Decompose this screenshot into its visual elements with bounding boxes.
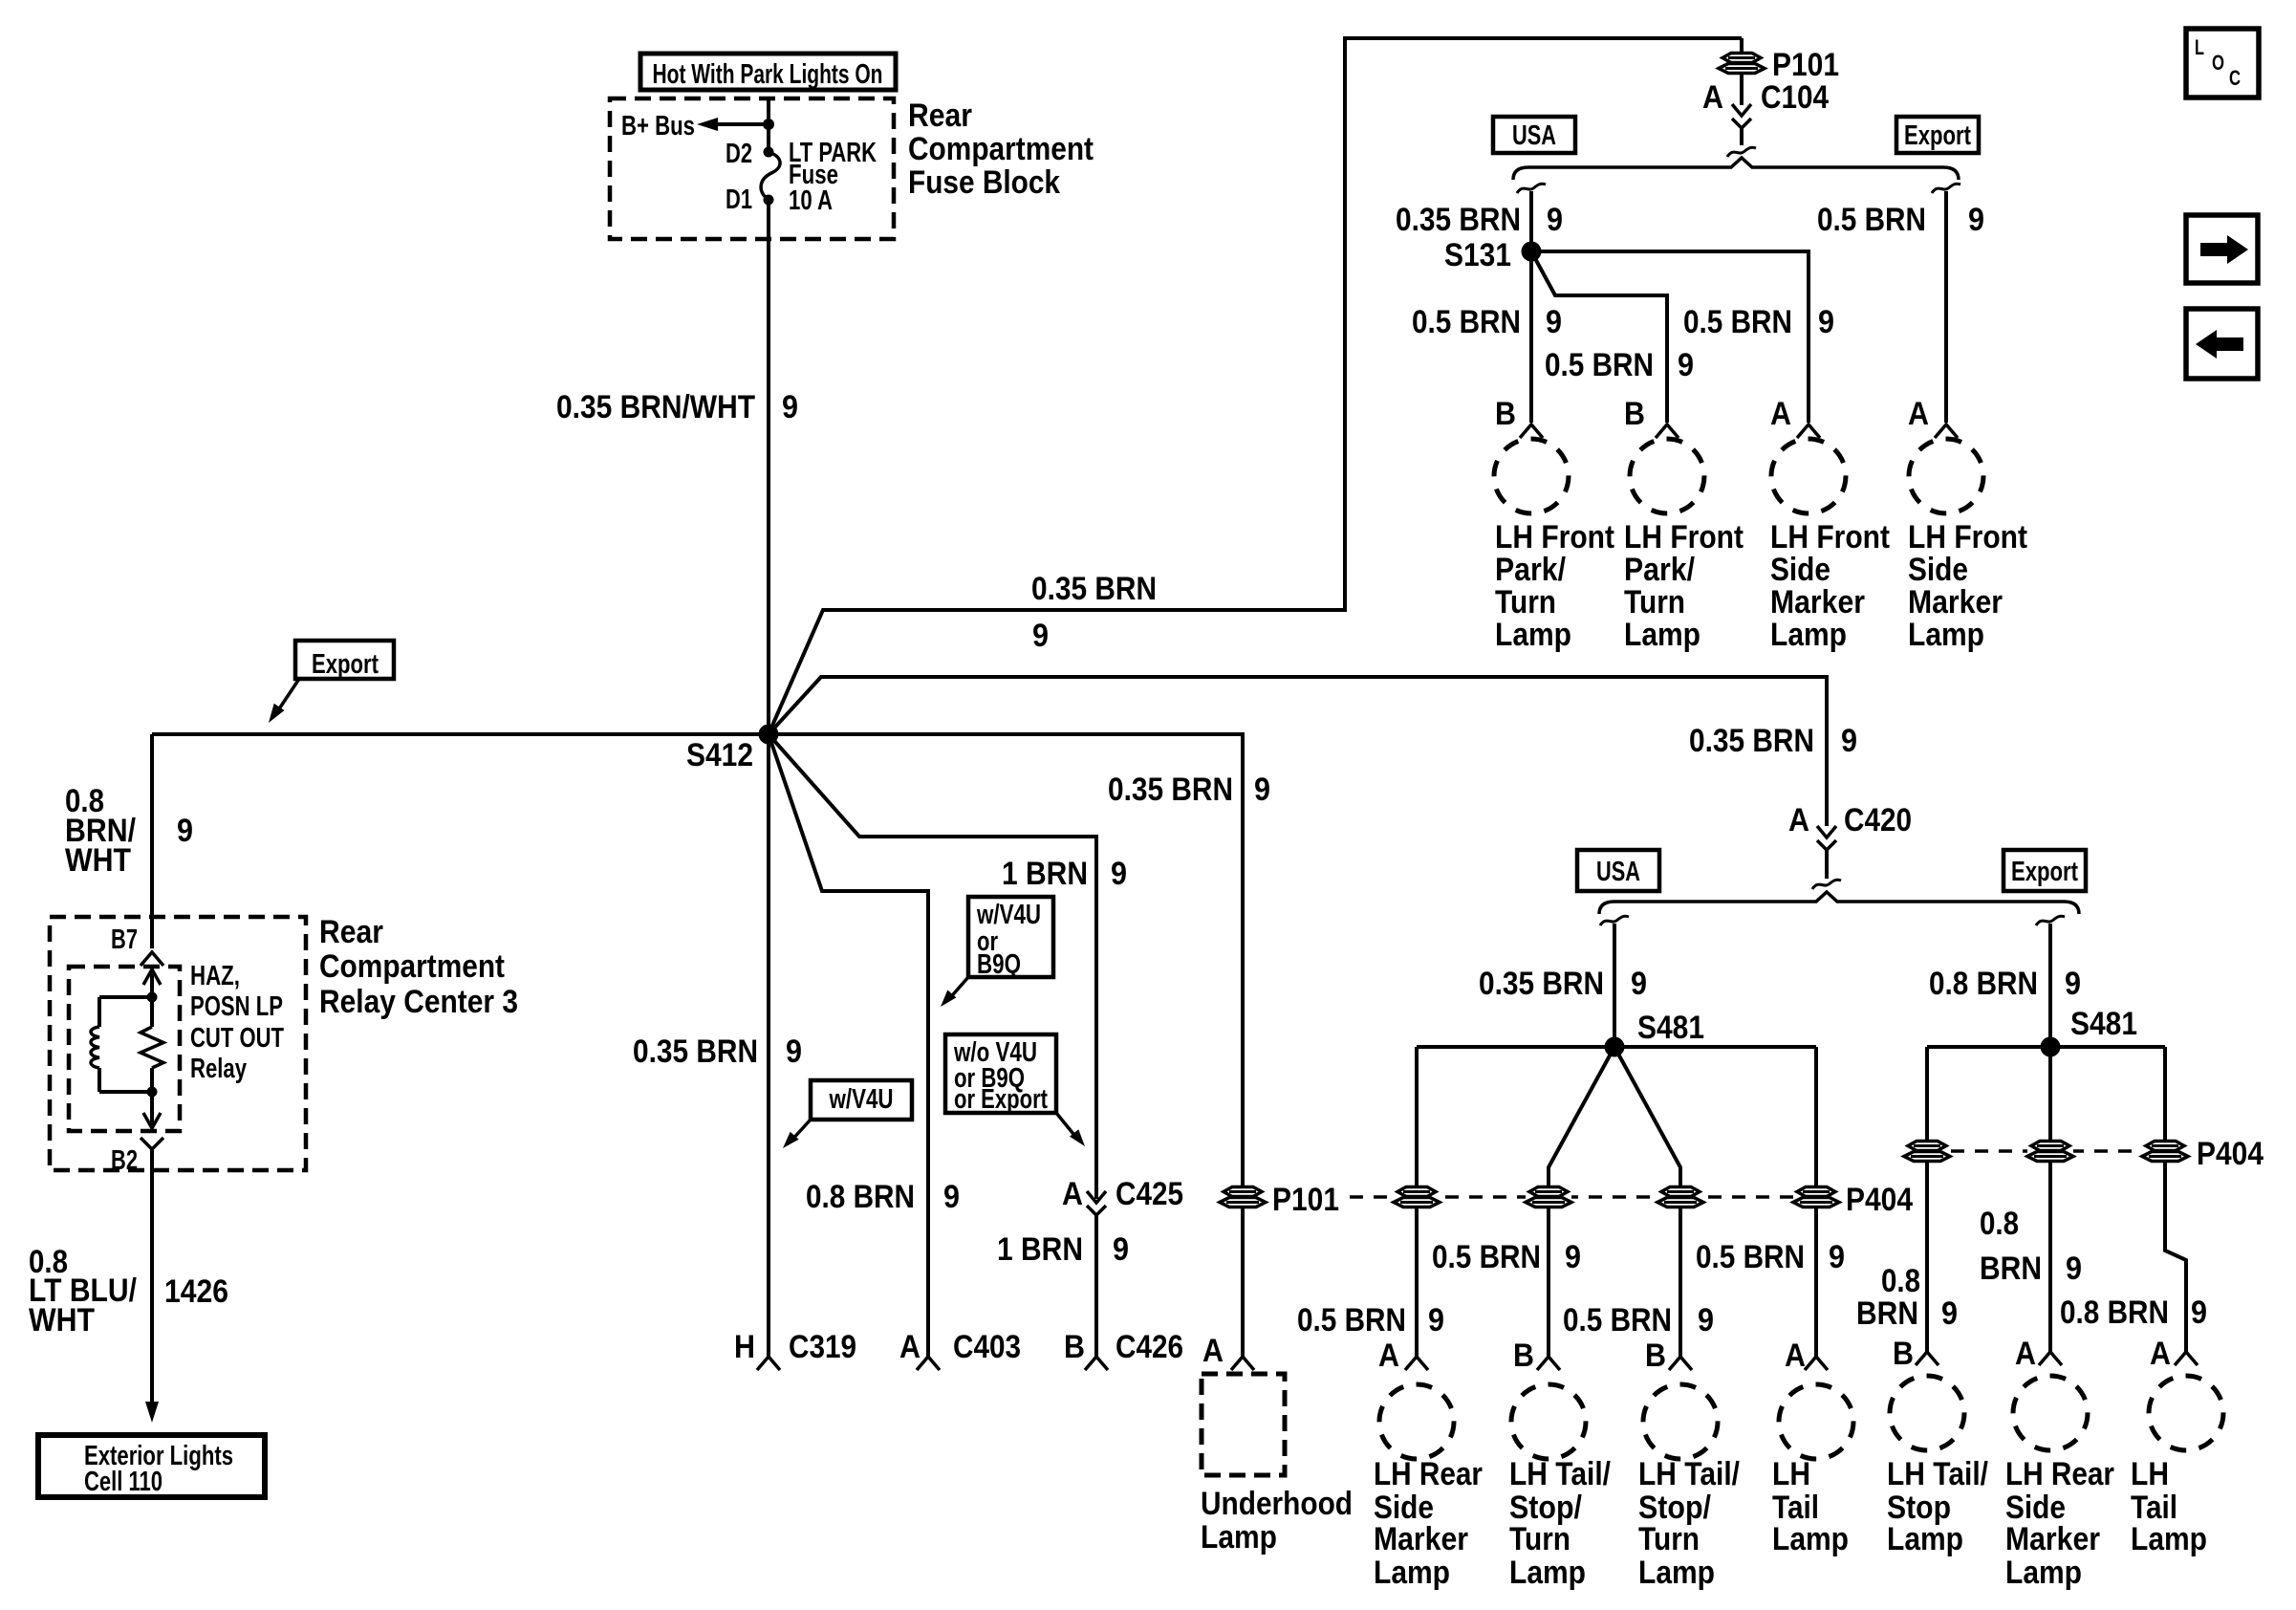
svg-text:0.5 BRN: 0.5 BRN (1432, 1239, 1541, 1275)
label: 0.35 BRN 9 (underhood feed) (1108, 772, 1270, 808)
svg-text:C403: C403 (953, 1329, 1021, 1365)
connector C319 (pin H) (734, 1329, 856, 1370)
svg-text:A: A (2015, 1336, 2036, 1372)
svg-text:9: 9 (1941, 1295, 1958, 1332)
grommet P404-4 (1793, 1186, 1839, 1207)
svg-text:Lamp: Lamp (1495, 617, 1571, 653)
svg-text:9: 9 (1631, 966, 1647, 1002)
svg-text:Marker: Marker (2005, 1521, 2100, 1557)
svg-text:B: B (1893, 1336, 1914, 1372)
label: 0.35 BRN 9 (S131 feed) (1396, 202, 1563, 238)
nav box: LOC (2186, 29, 2259, 98)
svg-text:D1: D1 (726, 185, 752, 215)
svg-text:Side: Side (1908, 552, 1968, 588)
svg-text:0.35 BRN/WHT: 0.35 BRN/WHT (556, 389, 755, 425)
svg-text:CUT OUT: CUT OUT (190, 1023, 284, 1054)
power label box: Hot With Park Lights On (640, 54, 896, 90)
svg-text:Lamp: Lamp (1772, 1521, 1849, 1557)
label: 0.5 BRN 9 (lamp4) (1817, 202, 1984, 238)
svg-text:0.35 BRN: 0.35 BRN (1396, 202, 1521, 238)
svg-text:Export: Export (2011, 857, 2078, 887)
lamp: LH Rear Side Marker Lamp (right) (2013, 1376, 2088, 1450)
svg-text:Park/: Park/ (1624, 552, 1695, 588)
option tag: w/o V4U or B9Q or Export (points to C425 wire) (945, 1034, 1085, 1146)
svg-text:Lamp: Lamp (2005, 1555, 2082, 1591)
svg-text:O: O (2212, 51, 2224, 75)
wire: S412 to C420 (0.35 BRN 9) (769, 677, 1827, 817)
svg-text:Lamp: Lamp (1509, 1555, 1586, 1591)
svg-text:0.8: 0.8 (1980, 1206, 2019, 1242)
label: LH Tail/Stop/Turn Lamp (1) (1509, 1456, 1611, 1591)
svg-text:C319: C319 (789, 1329, 856, 1365)
svg-text:Side: Side (1770, 552, 1830, 588)
svg-text:B2: B2 (111, 1145, 138, 1176)
label: 0.8 BRN/WHT 9 (65, 783, 193, 879)
svg-text:LH Tail/: LH Tail/ (1638, 1456, 1740, 1492)
wire: Export branch to S481 (0.8 BRN 9) (2036, 916, 2065, 1047)
pin A (lamp4) (1908, 396, 1929, 432)
svg-text:Park/: Park/ (1495, 552, 1566, 588)
svg-text:Marker: Marker (1374, 1521, 1468, 1557)
label: 0.5 BRN 9 (lamp1) (1412, 304, 1562, 340)
label: 0.8 BRN 9 (right lamp B) (1980, 1206, 2082, 1287)
option box: USA (rear) (1577, 850, 1659, 891)
svg-text:9: 9 (1968, 202, 1984, 238)
svg-text:9: 9 (786, 1033, 802, 1070)
wire: B+ Bus feed with arrow (697, 118, 774, 131)
svg-text:Lamp: Lamp (1770, 617, 1847, 653)
pin B (lamp2) (1624, 396, 1645, 432)
label: 0.5 BRN 9 (tail lamp C) (1563, 1302, 1714, 1338)
wire: S481 bus (right group) (1927, 1045, 2165, 1049)
label: 0.8 BRN 9 (C403) (806, 1179, 960, 1215)
svg-text:9: 9 (1546, 304, 1562, 340)
pin D2 (726, 139, 752, 169)
grommet P404-5 (1904, 1141, 1950, 1162)
svg-text:P404: P404 (2197, 1136, 2264, 1172)
connector C104 (pin A) (1702, 79, 1829, 157)
relay coil winding (91, 997, 152, 1092)
label: 1 BRN 9 (lower) (997, 1231, 1129, 1268)
node S412 splice (686, 725, 779, 774)
pin B2 (111, 1138, 163, 1176)
label: 0.8 LT BLU/WHT 1426 (29, 1244, 228, 1338)
svg-text:C425: C425 (1116, 1176, 1183, 1212)
connector C425 (pin A) (1062, 1176, 1183, 1357)
option box: USA (front) (1493, 117, 1575, 153)
svg-text:A: A (1785, 1338, 1806, 1374)
svg-text:Lamp: Lamp (1374, 1555, 1450, 1591)
svg-text:1 BRN: 1 BRN (1002, 856, 1088, 892)
lamp: LH Rear Side Marker Lamp (1379, 1384, 1454, 1459)
svg-text:B: B (1495, 396, 1516, 432)
wire: fuse block feed from hot box (767, 98, 770, 152)
svg-text:Fuse Block: Fuse Block (908, 164, 1060, 201)
svg-text:10 A: 10 A (789, 185, 833, 216)
svg-text:B7: B7 (111, 925, 138, 955)
svg-text:A: A (1702, 79, 1723, 116)
svg-text:L: L (2195, 35, 2204, 59)
label: 0.5 BRN 9 (tail lamp A) (1297, 1302, 1444, 1338)
svg-text:1 BRN: 1 BRN (997, 1231, 1083, 1268)
svg-text:Compartment: Compartment (319, 948, 505, 985)
relay input arrow (up) (143, 969, 161, 1003)
label: P404 (left group) (1846, 1182, 1913, 1218)
option tag: w/V4U or B9Q (points to C403 wire) (941, 897, 1053, 1007)
svg-text:HAZ,: HAZ, (190, 961, 240, 991)
svg-text:Export: Export (312, 649, 379, 680)
svg-text:9: 9 (177, 813, 193, 849)
svg-text:Lamp: Lamp (1887, 1521, 1963, 1557)
lamp: LH Tail/Stop/Turn Lamp (2) (1643, 1384, 1718, 1459)
pin A + connector (right lamp C) (2150, 1336, 2198, 1372)
option box: Export (front) (1896, 117, 1979, 153)
label: 0.8 BRN 9 (S481 right feed) (1929, 966, 2081, 1002)
label: Rear Compartment Fuse Block (908, 98, 1094, 201)
wire: S481 to LH Tail Lamp (0.5 BRN 9) (1814, 1047, 1818, 1357)
wire: S131 to LH Front Park/Turn Lamp 2 (0.5 BRN 9) (1531, 251, 1679, 438)
wire: S131 to LH Front Park/Turn Lamp 1 (0.5 BRN 9) (1520, 251, 1543, 438)
label: LH Tail Lamp (right) (2131, 1456, 2207, 1557)
svg-text:0.8 BRN: 0.8 BRN (2060, 1295, 2169, 1331)
svg-text:0.5 BRN: 0.5 BRN (1412, 304, 1521, 340)
svg-text:C420: C420 (1844, 802, 1912, 838)
svg-text:S412: S412 (686, 737, 753, 773)
label: LH Tail/Stop/Turn Lamp (2) (1638, 1456, 1740, 1591)
pin A + connector (right lamp B) (2015, 1336, 2062, 1372)
label: HAZ POSN LP CUT OUT Relay (190, 961, 284, 1084)
lamp: LH Front Park/Turn Lamp (2) (1630, 439, 1704, 513)
label: 0.35 BRN 9 (C319) (633, 1033, 802, 1070)
svg-text:Turn: Turn (1624, 584, 1685, 620)
label: 0.35 BRN 9 (top feed) (1031, 571, 1157, 654)
svg-text:Rear: Rear (319, 914, 383, 950)
svg-text:0.35 BRN: 0.35 BRN (1108, 772, 1233, 808)
svg-text:9: 9 (1818, 304, 1834, 340)
wire: USA branch to S481 (0.35 BRN 9) (1600, 916, 1629, 1047)
label: Underhood Lamp (1201, 1486, 1353, 1556)
wire: S481 to LH Tail/Stop Lamp (0.8 BRN 9) (1925, 1047, 1929, 1352)
label: LH Tail Lamp (left) (1772, 1456, 1849, 1557)
svg-text:0.8: 0.8 (1881, 1263, 1920, 1299)
svg-text:Marker: Marker (1770, 584, 1865, 620)
wire: S412 to C104 front lamps feed (0.35 BRN 9) (769, 38, 1742, 734)
connector C403 (pin A) (899, 1329, 1021, 1370)
pin A + connector (underhood) (1202, 1333, 1254, 1370)
svg-text:S481: S481 (2070, 1006, 2137, 1042)
label: 0.35 BRN 9 (C420 feed) (1689, 723, 1857, 759)
svg-text:LH Tail/: LH Tail/ (1887, 1456, 1988, 1492)
svg-text:0.35 BRN: 0.35 BRN (633, 1033, 758, 1070)
svg-text:P404: P404 (1846, 1182, 1913, 1218)
label: Rear Compartment Relay Center 3 (319, 914, 518, 1020)
svg-text:Turn: Turn (1509, 1521, 1570, 1557)
svg-text:LH Front: LH Front (1908, 519, 2027, 555)
pin B + connector (tail lamp B) (1513, 1338, 1560, 1374)
svg-text:9: 9 (1841, 723, 1857, 759)
svg-text:Lamp: Lamp (1624, 617, 1700, 653)
label: LH Rear Side Marker Lamp (right) (2005, 1456, 2114, 1591)
relay output arrow (down) (143, 1092, 161, 1128)
svg-text:A: A (1062, 1176, 1083, 1212)
pin A + connector (tail lamp D) (1785, 1338, 1828, 1374)
svg-text:0.5 BRN: 0.5 BRN (1817, 202, 1926, 238)
svg-text:WHT: WHT (29, 1302, 95, 1338)
svg-text:9: 9 (1829, 1239, 1845, 1275)
svg-text:C426: C426 (1116, 1329, 1183, 1365)
svg-text:Turn: Turn (1495, 584, 1556, 620)
svg-text:C: C (2229, 66, 2241, 90)
lamp: LH Tail Lamp (right) (2149, 1376, 2223, 1450)
label: P404 (right group) (2197, 1136, 2264, 1172)
component box: Underhood Lamp (dashed) (1202, 1374, 1285, 1475)
svg-text:Relay Center 3: Relay Center 3 (319, 984, 518, 1020)
pin D1 (726, 185, 752, 215)
label: Export option tag with arrow (269, 641, 394, 723)
svg-text:9: 9 (1254, 772, 1270, 808)
label: 0.5 BRN 9 (lamp2) (1545, 347, 1694, 383)
svg-text:LH Front: LH Front (1495, 519, 1614, 555)
svg-text:BRN: BRN (1856, 1295, 1918, 1332)
branch brace at C104 (USA / Export split) (1513, 158, 1959, 180)
svg-text:9: 9 (782, 389, 798, 425)
svg-text:LH Tail/: LH Tail/ (1509, 1456, 1611, 1492)
svg-text:9: 9 (2066, 1251, 2082, 1287)
lamp: LH Tail/Stop Lamp (1890, 1376, 1964, 1450)
label: P101 (top) (1772, 47, 1839, 83)
label: 0.8 BRN 9 (right lamp C) (2060, 1295, 2207, 1331)
svg-text:Lamp: Lamp (1201, 1519, 1277, 1556)
svg-text:w/V4U: w/V4U (829, 1084, 894, 1115)
grommet P101 (underhood) (1220, 1186, 1266, 1207)
svg-text:BRN: BRN (1980, 1251, 2042, 1287)
wire: S481 to LH Tail/Stop/Turn Lamp 2 (0.5 BRN 9) (1614, 1047, 1680, 1357)
svg-text:S131: S131 (1444, 237, 1511, 273)
label: 1 BRN 9 (upper) (1002, 856, 1127, 892)
svg-text:Rear: Rear (908, 98, 972, 134)
svg-text:A: A (899, 1329, 921, 1365)
svg-text:9: 9 (1547, 202, 1563, 238)
node S131 splice (1444, 237, 1542, 273)
label: 0.8 BRN 9 (right lamp A) (1856, 1263, 1958, 1332)
svg-text:Lamp: Lamp (2131, 1521, 2207, 1557)
svg-text:A: A (1202, 1333, 1224, 1369)
node S481 splice (left) (1605, 1010, 1705, 1057)
grommet P404-2 (1526, 1186, 1571, 1207)
node S481 splice (right) (2041, 1006, 2138, 1057)
svg-text:0.5 BRN: 0.5 BRN (1563, 1302, 1672, 1338)
svg-text:9: 9 (1698, 1302, 1714, 1338)
wire: S481 to LH Rear Side Marker Lamp (0.5 BRN 9) (1415, 1047, 1419, 1357)
svg-text:USA: USA (1512, 120, 1556, 151)
wire: 0.8 LT BLU/WHT circuit 1426 to Exterior Lights (145, 1149, 159, 1423)
wire: Export branch to LH Front Side Marker Lamp 4 (0.5 BRN 9) (1932, 184, 1960, 438)
wire: S412 to C425 (1 BRN 9) (769, 734, 1096, 1199)
svg-text:B9Q: B9Q (977, 949, 1021, 980)
wire: S412 to Underhood Lamp via P101 (0.35 BRN 9) (769, 734, 1243, 1357)
lamp: LH Front Side Marker Lamp (4) (1909, 439, 1983, 513)
svg-text:0.5 BRN: 0.5 BRN (1696, 1239, 1805, 1275)
label: B+ Bus (621, 111, 695, 141)
svg-text:A: A (1770, 396, 1791, 432)
svg-text:9: 9 (1113, 1231, 1129, 1268)
svg-text:B: B (1624, 396, 1645, 432)
wire: S412 down to C319 (0.35 BRN 9) (767, 734, 770, 1357)
wire: S412 left to relay center (0.8 BRN/WHT) (152, 734, 769, 948)
svg-text:LH: LH (2131, 1456, 2169, 1492)
svg-text:A: A (1788, 802, 1809, 838)
svg-text:Lamp: Lamp (1638, 1555, 1715, 1591)
branch brace at C420 (USA / Export split) (1599, 892, 2079, 914)
wire: S481 to LH Rear Side Marker Lamp right (0.8 BRN 9) (2048, 1047, 2052, 1352)
nav box: forward arrow (2186, 215, 2258, 283)
svg-text:9: 9 (2191, 1295, 2207, 1331)
svg-text:H: H (734, 1329, 755, 1365)
svg-text:POSN LP: POSN LP (190, 991, 283, 1022)
svg-text:0.5 BRN: 0.5 BRN (1545, 347, 1654, 383)
grommet P404-7 (2142, 1141, 2188, 1162)
svg-text:1426: 1426 (164, 1273, 228, 1310)
svg-text:P101: P101 (1272, 1182, 1339, 1218)
dashed grommet row P404 (left group) (1350, 1195, 1816, 1199)
svg-text:Lamp: Lamp (1908, 617, 1984, 653)
grommet P404-6 (2027, 1141, 2073, 1162)
relay center box: Rear Compartment Relay Center 3 (dashed) (50, 917, 306, 1170)
svg-text:Hot With Park Lights On: Hot With Park Lights On (653, 59, 883, 90)
connector C420 (pin A) (1788, 802, 1912, 889)
svg-text:LH Front: LH Front (1770, 519, 1890, 555)
svg-text:9: 9 (2065, 966, 2081, 1002)
wire: S481 bus (left group) (1417, 1045, 1816, 1049)
svg-text:9: 9 (943, 1179, 960, 1215)
svg-text:B: B (1064, 1329, 1085, 1365)
grommet P404-1 (1394, 1186, 1440, 1207)
svg-text:B+ Bus: B+ Bus (621, 111, 695, 141)
pin A (lamp3) (1770, 396, 1791, 432)
label: 0.5 BRN 9 (lamp3) (1683, 304, 1834, 340)
svg-text:WHT: WHT (65, 842, 131, 879)
destination box: Exterior Lights Cell 110 (38, 1435, 265, 1497)
relay K: HAZ POSN LP CUT OUT Relay (inner dashed box) (69, 967, 180, 1131)
svg-text:or Export: or Export (954, 1084, 1048, 1115)
svg-text:D2: D2 (726, 139, 752, 169)
svg-text:LH Rear: LH Rear (2005, 1456, 2114, 1492)
label: 0.35 BRN/WHT 9 (556, 389, 798, 425)
pin B + connector (right lamp A) (1893, 1336, 1939, 1372)
svg-text:LH Front: LH Front (1624, 519, 1744, 555)
svg-text:0.8 BRN: 0.8 BRN (806, 1179, 915, 1215)
label: LT PARK Fuse 10 A (789, 138, 877, 216)
svg-text:Export: Export (1904, 120, 1971, 151)
label: LH Rear Side Marker Lamp (1374, 1456, 1483, 1591)
svg-text:Underhood: Underhood (1201, 1486, 1353, 1522)
lamp: LH Tail Lamp (left group) (1779, 1384, 1853, 1459)
svg-text:USA: USA (1596, 857, 1640, 887)
wire: S481 to LH Tail/Stop/Turn Lamp 1 (0.5 BRN 9) (1549, 1047, 1614, 1357)
svg-text:C104: C104 (1761, 79, 1829, 116)
svg-text:Relay: Relay (190, 1054, 247, 1084)
svg-text:A: A (1908, 396, 1929, 432)
pin B (lamp1) (1495, 396, 1516, 432)
option tag: w/V4U (points to C319 wire) (783, 1080, 912, 1148)
connector C426 (pin B) (1064, 1329, 1183, 1370)
lamp: LH Front Side Marker Lamp (3) (1771, 439, 1846, 513)
wire: S131 to LH Front Side Marker Lamp 3 (0.5 BRN 9) (1531, 251, 1820, 438)
fuse block: Rear Compartment Fuse Block (dashed) (610, 98, 894, 239)
svg-text:B: B (1645, 1338, 1666, 1374)
svg-text:Compartment: Compartment (908, 131, 1094, 167)
wire: S412 to C403 (0.8 BRN 9) (769, 734, 928, 1357)
svg-text:9: 9 (1111, 856, 1127, 892)
svg-text:B: B (1513, 1338, 1534, 1374)
svg-text:0.5 BRN: 0.5 BRN (1683, 304, 1792, 340)
pin B + connector (tail lamp C) (1645, 1338, 1692, 1374)
svg-text:S481: S481 (1637, 1010, 1704, 1046)
lamp: LH Tail/Stop/Turn Lamp (1) (1511, 1384, 1586, 1459)
svg-text:0.35 BRN: 0.35 BRN (1689, 723, 1814, 759)
svg-text:0.8 BRN: 0.8 BRN (1929, 966, 2038, 1002)
svg-text:9: 9 (1565, 1239, 1581, 1275)
svg-text:0.35 BRN: 0.35 BRN (1031, 571, 1157, 607)
grommet P101 (top) (1719, 38, 1765, 105)
pin A + connector (tail lamp A) (1378, 1338, 1428, 1374)
lamp: LH Front Park/Turn Lamp (1) (1494, 439, 1569, 513)
pin B7 (111, 925, 163, 966)
svg-text:0.35 BRN: 0.35 BRN (1479, 966, 1604, 1002)
dashed grommet row P404 (right group) (1927, 1149, 2165, 1153)
svg-text:Cell 110: Cell 110 (84, 1467, 162, 1497)
svg-text:Turn: Turn (1638, 1521, 1700, 1557)
grommet P404-3 (1657, 1186, 1703, 1207)
relay resistor element (141, 997, 163, 1098)
label: P101 (underhood) (1272, 1182, 1339, 1218)
svg-text:P101: P101 (1772, 47, 1839, 83)
wire: 0.35 BRN/WHT circuit 9 (fuse output down to S412) (767, 200, 770, 734)
nav box: back arrow (2186, 309, 2258, 379)
svg-text:LH Rear: LH Rear (1374, 1456, 1483, 1492)
svg-text:9: 9 (1678, 347, 1694, 383)
label: 0.5 BRN 9 (tail lamp D) (1696, 1239, 1845, 1275)
label: LH Tail/Stop Lamp (1887, 1456, 1988, 1557)
fuse F: LT PARK Fuse 10 A (761, 147, 780, 206)
wire: S481 to LH Tail Lamp right (0.8 BRN 9, with jog) (2165, 1047, 2186, 1352)
svg-text:9: 9 (1032, 618, 1049, 654)
svg-text:0.5 BRN: 0.5 BRN (1297, 1302, 1406, 1338)
svg-text:LH: LH (1772, 1456, 1810, 1492)
option box: Export (rear) (2004, 850, 2086, 891)
svg-text:A: A (2150, 1336, 2171, 1372)
label: 0.35 BRN 9 (S481 left feed) (1479, 966, 1647, 1002)
wire: USA branch down to S131 (0.35 BRN 9) (1517, 184, 1546, 251)
svg-text:Marker: Marker (1908, 584, 2003, 620)
label: 0.5 BRN 9 (tail lamp B) (1432, 1239, 1581, 1275)
svg-text:9: 9 (1428, 1302, 1444, 1338)
svg-text:A: A (1378, 1338, 1399, 1374)
